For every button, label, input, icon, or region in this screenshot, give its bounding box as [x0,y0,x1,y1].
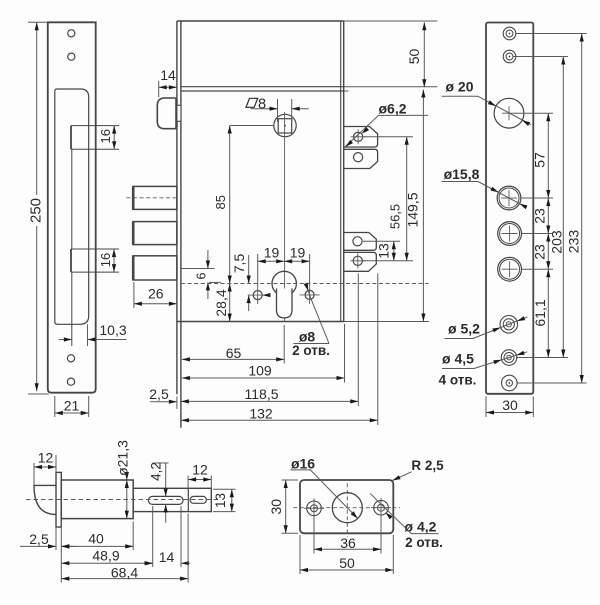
dimension 132 ext [377,274,379,426]
dimension 149,5 [422,90,424,322]
center view: faceplate right line [180,21,182,428]
svg-text:12: 12 [192,462,208,478]
right view: hole d5,2 [500,316,518,334]
right chain dim 23b [547,234,549,270]
dimension 4,2 arrows [153,462,169,464]
svg-text:19: 19 [290,245,306,261]
svg-text:4,2: 4,2 [149,462,164,481]
svg-text:30: 30 [268,499,284,515]
bottom plate outline [300,480,393,533]
svg-text:23: 23 [532,244,548,260]
dimension 36 ext [313,517,315,554]
svg-text:14: 14 [159,549,175,565]
lower tab lobe 1 [344,233,377,251]
dimension 30 (right plate) [486,412,533,414]
svg-text:61,1: 61,1 [532,299,548,326]
right view: hole d4,5 [501,350,517,366]
dimension 48,9 [61,562,152,564]
fixing hole right (d8) [305,290,314,299]
dimension 40 ext [132,522,134,551]
deadbolt 3 left cap [132,256,135,280]
latch bolt tip through faceplate [177,105,181,121]
label R2,5 leader [393,472,412,481]
deadbolt 2 left cap [132,222,135,245]
label d4,2 underline [411,533,439,535]
dimension 16 (notch1) [113,126,115,150]
svg-text:ø 5,2: ø 5,2 [448,320,480,336]
right view: bottom washer hole [502,375,518,391]
spindle square hole circle [274,114,296,136]
svg-text:118,5: 118,5 [245,386,279,402]
dimension 14 slot ext [180,506,182,567]
upper tab hole 1 [354,132,363,141]
svg-text:2 отв.: 2 отв. [292,343,330,358]
fixing hole left leader arrow [262,293,270,297]
center view: case top line 2 [181,90,344,92]
center view: faceplate left line [176,21,178,394]
dimension 8 ext lines [277,99,279,122]
dimension 12 head ext [33,463,35,485]
dimension 30 plate ext [282,479,299,481]
dimension 250 ext bottom [28,393,49,395]
svg-text:65: 65 [226,345,242,361]
upper tab hole 1 cross [351,136,366,138]
svg-text:48,9: 48,9 [92,548,119,564]
right view: top washer hole 2 [503,50,516,63]
fixing hole right crosshair [300,294,320,296]
svg-text:109: 109 [248,362,272,378]
right chain ext lines [515,112,553,114]
lower tab hole 2 cross [350,260,365,262]
dimension 14 (slot) [144,562,153,564]
left view: long slot [55,89,89,324]
center view: body bottom ext [344,321,429,323]
dimension 50 ext [299,535,301,574]
label d16 leader [310,470,358,519]
bolt flange [56,472,61,527]
svg-text:ø16: ø16 [291,455,315,471]
svg-text:10,3: 10,3 [99,322,126,338]
dimension 13 (tabs) [393,241,395,260]
svg-text:R 2,5: R 2,5 [411,458,444,473]
dimension 13 shaft ext [213,488,236,490]
upper tab hole 2 [354,153,363,162]
dimension d21,3 [126,480,128,519]
bolt slot 2 [190,496,206,503]
svg-text:40: 40 [88,531,104,547]
svg-text:12: 12 [38,450,54,466]
right chain dim 61,1 [547,269,549,357]
deadbolt 1 left cap [132,186,135,209]
left view: bottom screw hole 2 [67,378,74,385]
dimension 21 ext lines [54,396,56,417]
dimension 26 ext [133,282,135,308]
left view: slot right ext below [87,324,89,346]
left view: notch 1 top edge [71,125,119,127]
horizontal dashed centerline [181,283,429,285]
svg-text:21: 21 [64,397,80,413]
svg-text:26: 26 [148,286,164,302]
svg-text:56,5: 56,5 [388,204,403,229]
spindle vertical centerline [284,112,286,322]
label d8 leader [311,299,329,343]
left view: notch 2 left edge [70,249,72,272]
dimension 36 [314,548,381,550]
label d4,2 leader [370,493,411,533]
spindle square hole [278,119,292,133]
label d6,2 leader [345,115,379,147]
svg-text:19: 19 [264,245,280,261]
dimension 203 [562,57,564,358]
label d16 underline [291,469,312,471]
svg-text:6: 6 [195,272,209,279]
dimension 250 ext top [28,21,48,23]
label d20 leader [478,96,531,124]
center view: body right edge inner [340,21,342,322]
bolt slot 1 [148,496,183,504]
bottom plate vertical centerline [346,483,348,536]
dimension 233 [581,34,583,384]
dimension 12 (shaft) [188,479,211,481]
dimension 56,5 ext top [364,136,413,138]
dimension 14 ext [158,81,160,98]
svg-text:132: 132 [249,406,273,422]
dimension 118,5 [181,400,358,402]
dimension 48,9 ext [152,506,154,567]
left view: notch 1 bottom edge [71,148,119,150]
dimension 10,3 [59,339,72,341]
bolt head profile [34,485,56,514]
left view: inner channel line upper [71,149,73,249]
label d5,2 leader [473,317,527,339]
latch bolt inner line [175,98,177,128]
lower tab lobe 2 [344,252,377,271]
lower tab hole 2 [353,256,362,265]
cylinder hole circle [272,271,296,295]
svg-text:14: 14 [160,67,176,83]
svg-text:ø8: ø8 [299,328,316,344]
bolt cylinder [61,480,133,519]
spindle center dot [284,125,286,127]
deadbolt 3 [133,256,177,280]
dimension 19 right segment [284,260,309,262]
dimension 7,5 upper arrow [248,255,250,284]
svg-text:16: 16 [98,253,113,267]
bolt shaft divider [187,488,189,511]
lower tab hole 1 [353,237,362,246]
right view: hole d15,8 #2 [498,222,522,246]
dimension 65 ext [283,325,285,364]
dimension d21,3 label arrow [126,474,128,480]
label d15,8 leader [478,182,527,208]
dimension 13 ext lines [363,240,400,242]
center view: top edge extension [344,20,438,22]
deadbolt 1 centerline [126,197,178,199]
right view: hole d15,8 #1 [497,186,521,210]
svg-text:85: 85 [213,195,228,209]
bottom plate right hole [374,500,389,515]
deadbolt 1 [133,186,177,209]
svg-text:2,5: 2,5 [149,386,169,402]
svg-text:8: 8 [258,96,266,112]
dimension 16 (notch2) [113,249,115,272]
right chain dim 23a [547,198,549,234]
upper tab lobe 1 [344,127,378,148]
right view: plate outline [486,23,533,394]
bottom plate left hole [307,501,322,516]
dimension 14 [159,86,177,88]
svg-text:ø 4,5: ø 4,5 [442,351,474,367]
fixing hole left crosshair [248,294,268,296]
label d4,5 leader [442,368,474,370]
dimension 2,5 tick [176,397,178,410]
center view: body right edge outer [343,21,345,322]
right view: top washer hole 1 [503,27,516,40]
svg-text:ø6,2: ø6,2 [378,100,406,116]
dimension 68,4 ext lines [60,522,62,583]
latch bolt front view [157,98,177,129]
dimension 2,5 line [150,401,177,403]
right view: hole d15,8 #3 [498,257,522,281]
upper tab lobe 2 [344,149,378,168]
dimension 7,5 lower arrow [248,295,250,311]
bolt dashed centerline [26,499,218,501]
label d6,2 underline [379,114,429,116]
svg-text:ø15,8: ø15,8 [444,166,480,182]
svg-text:2 отв.: 2 отв. [405,535,443,550]
dimension 250 [36,22,38,391]
svg-text:13: 13 [213,493,228,508]
dimension 13 (shaft) [231,489,233,511]
label d15,8 underline [442,181,478,183]
left view: notch 2 bottom edge [71,271,119,273]
dimension 56,5 [406,137,408,261]
dimension 203 ext [513,56,568,58]
dimension 30 ext lines [485,397,487,418]
center view: body top edge [177,20,344,22]
svg-text:233: 233 [566,230,582,254]
svg-text:2,5: 2,5 [29,531,49,547]
dimension 21 [55,412,89,414]
left view: bottom screw hole 1 [67,355,74,362]
left view: faceplate outer outline [48,22,96,392]
svg-text:16: 16 [98,129,113,143]
svg-text:50: 50 [339,555,355,571]
dimension 6 arrows [207,250,209,269]
dimension 118,5 ext [357,274,359,407]
dimension 40 [61,545,133,547]
label d5,2 underline [445,338,474,340]
svg-text:13: 13 [376,243,392,259]
dimension 26 [134,303,177,305]
svg-text:203: 203 [549,230,565,254]
square symbol of label 8 [246,98,258,107]
left view: inner channel line lower [71,272,73,346]
svg-text:7,5: 7,5 [231,254,247,274]
bottom plate horizontal centerline [293,507,400,509]
center view: case top line 1 ext [344,86,438,88]
dimension 2,5 flange ext [55,527,57,550]
svg-text:30: 30 [502,397,518,413]
svg-text:36: 36 [340,535,356,551]
svg-text:250: 250 [28,198,45,223]
cylinder keyhole stem [277,289,293,318]
dimension 28,4 [229,284,231,322]
dimension 233 ext [516,33,587,35]
center view: case top line 2 ext [344,90,349,92]
svg-text:4 отв.: 4 отв. [439,372,477,387]
dimension 2,5 (flange) [20,545,56,547]
label d20 underline [442,95,478,97]
svg-text:ø 20: ø 20 [445,79,473,95]
svg-text:68,4: 68,4 [111,564,138,580]
dimension 132 [181,419,378,421]
dimension 19 left segment [258,260,285,262]
bolt shaft [133,488,211,511]
fixing hole left (d8) [253,291,262,300]
svg-text:50: 50 [406,49,422,65]
dimension 12 (head) [34,466,56,468]
dimension 68,4 [61,578,188,580]
svg-text:23: 23 [532,208,548,224]
deadbolt 2 [133,222,177,245]
svg-text:ø21,3: ø21,3 [115,440,131,476]
label d8 underline [294,343,330,345]
left view: notch 1 left edge [70,126,72,150]
dimension 12 shaft ext [187,476,189,490]
dimension 50 (plate) [300,569,393,571]
dimension 65 [182,358,284,360]
center view: case top line 1 [181,86,344,88]
bottom plate hole d16 [332,493,362,523]
dimension 30 (plate) [285,480,287,533]
line at bolt3 centerline [181,268,215,270]
dimension 250 text [33,195,47,226]
dimension 8 line [251,108,278,110]
right view: hole d20 [494,98,524,128]
dimension 85 [229,126,231,284]
svg-text:57: 57 [532,152,548,168]
dimension 109 ext [344,324,346,383]
left view: top screw hole 1 [68,30,75,37]
dimension 50 [423,22,425,87]
spindle horizontal centerline left [230,125,274,127]
dimension 109 [182,377,345,379]
center view: body bottom edge [177,321,344,323]
svg-text:28,4: 28,4 [213,289,229,316]
dimension 19 ext lines [257,254,259,286]
short line 6-dim lower [209,281,221,283]
left view: top screw hole 2 [68,53,75,60]
right chain dim line 57 [547,113,549,198]
left view: notch 2 top edge [71,248,119,250]
